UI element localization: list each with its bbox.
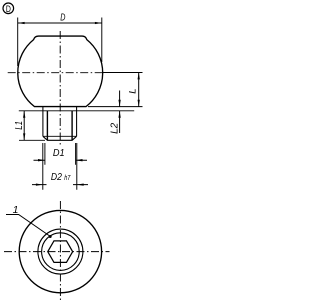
svg-text:L2: L2 [110, 122, 121, 133]
svg-text:D1: D1 [53, 148, 65, 159]
svg-text:h7: h7 [64, 175, 71, 182]
svg-text:D2: D2 [51, 172, 62, 183]
svg-text:L1: L1 [14, 121, 25, 130]
svg-text:D: D [60, 13, 65, 24]
svg-text:D: D [6, 4, 11, 15]
svg-text:L: L [128, 89, 139, 94]
